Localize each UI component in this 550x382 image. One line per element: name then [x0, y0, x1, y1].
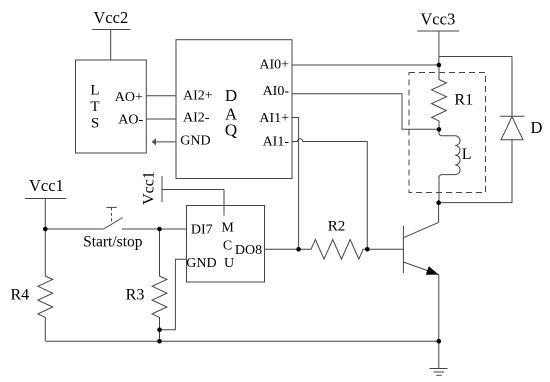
- svg-text:AI2+: AI2+: [183, 89, 213, 104]
- svg-text:T: T: [90, 99, 99, 115]
- svg-text:Vcc1: Vcc1: [29, 176, 64, 195]
- svg-text:AI2-: AI2-: [183, 111, 210, 126]
- svg-text:Q: Q: [225, 121, 237, 140]
- svg-text:AI1-: AI1-: [263, 135, 290, 150]
- svg-text:L: L: [90, 83, 99, 99]
- svg-text:AI0-: AI0-: [263, 84, 290, 99]
- svg-text:L: L: [462, 146, 472, 163]
- svg-text:GND: GND: [180, 134, 210, 149]
- svg-text:D: D: [531, 118, 543, 137]
- svg-text:D: D: [225, 86, 237, 105]
- svg-text:AI0+: AI0+: [259, 58, 289, 73]
- svg-text:R3: R3: [126, 286, 145, 303]
- svg-text:R2: R2: [328, 218, 346, 234]
- svg-text:C: C: [223, 239, 232, 254]
- svg-text:R1: R1: [454, 92, 473, 109]
- svg-text:DO8: DO8: [235, 243, 262, 258]
- svg-text:M: M: [221, 221, 234, 236]
- svg-text:AI1+: AI1+: [259, 111, 289, 126]
- svg-text:AO+: AO+: [115, 90, 143, 105]
- svg-text:DI7: DI7: [191, 223, 213, 238]
- svg-text:Vcc1: Vcc1: [141, 171, 158, 205]
- svg-text:Vcc3: Vcc3: [420, 10, 455, 29]
- svg-text:R4: R4: [10, 286, 29, 303]
- svg-text:S: S: [91, 116, 99, 132]
- svg-text:Start/stop: Start/stop: [83, 234, 143, 251]
- svg-text:GND: GND: [186, 256, 216, 271]
- svg-text:Vcc2: Vcc2: [93, 8, 128, 27]
- svg-text:AO-: AO-: [118, 112, 143, 127]
- svg-text:U: U: [224, 256, 234, 271]
